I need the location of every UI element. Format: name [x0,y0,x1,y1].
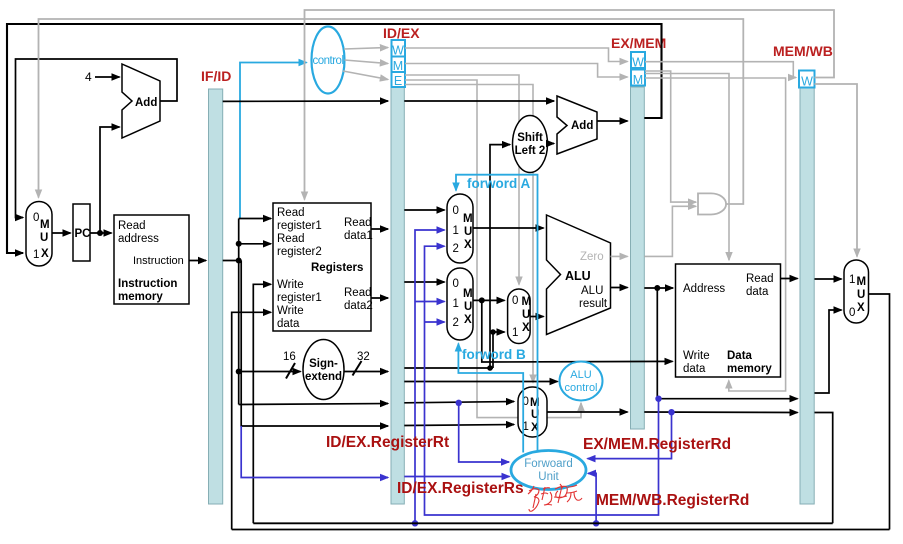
ID/EX WB box W [392,40,406,57]
wire instruction field bus vertical [238,219,240,405]
svg-text:data: data [746,286,769,298]
mux PC-source [26,202,52,267]
adder Add (PC+4) [122,64,160,138]
svg-text:Shift: Shift [517,132,543,144]
forwarding unit ellipse [511,451,586,490]
svg-text:ID/EX.RegisterRs: ID/EX.RegisterRs [397,480,524,497]
wire Zero to EX/MEM (gray) [611,255,628,257]
svg-text:address: address [118,233,159,245]
svg-text:1: 1 [512,327,518,339]
svg-text:Write: Write [683,350,710,362]
node PC output junction [97,230,103,236]
svg-text:U: U [464,226,472,238]
wire Instruction to IF/ID [189,260,206,262]
svg-text:PC: PC [75,228,91,240]
svg-text:IF/ID: IF/ID [201,68,231,84]
svg-text:Registers: Registers [311,262,363,274]
wire to Read register2 [239,243,271,245]
svg-text:Read: Read [746,273,774,285]
svg-text:0: 0 [453,205,459,217]
pipeline register ID/EX [391,87,404,504]
wire MemWrite: EX/MEM.M to data memory top (gray) [645,74,729,261]
EX/MEM WB box W [631,52,645,68]
svg-text:M: M [393,59,403,73]
svg-text:ID/EX.RegisterRt: ID/EX.RegisterRt [326,434,449,451]
wire ALUSrc: ID/EX.E to ALU-src mux select (gray) [405,75,519,285]
svg-text:M: M [463,213,473,225]
svg-text:forword A: forword A [467,176,530,191]
wire PC up to Add input 2 [100,127,120,233]
svg-text:M: M [522,296,532,308]
svg-text:Address: Address [683,283,725,295]
wire read data2 to forward mux B [404,281,444,283]
wire sign-extend output with 32 slash into ID/EX [344,371,388,373]
wire RegWrite: MEM/WB.W wrap to Registers (gray) [305,10,835,200]
svg-text:Read: Read [277,233,305,245]
node sign-extend junction [236,369,242,375]
node immediate to shift junction [487,365,493,371]
svg-text:memory: memory [727,363,772,375]
wire Add output loop back to mux input 0 [16,59,178,218]
svg-text:EX/MEM: EX/MEM [611,35,666,51]
wire control to ID/EX M [345,60,389,64]
forward mux B [447,268,473,340]
svg-text:ALU: ALU [565,269,591,283]
node instruction junction [236,258,242,264]
wire control to ID/EX W [344,48,388,50]
svg-text:W: W [392,44,404,58]
svg-text:data2: data2 [344,300,373,312]
wire instruction to control (cyan) [240,63,307,220]
instruction memory box [114,215,189,304]
alu main [547,215,611,335]
wire ID/EX.RegisterRt (blue) down to forwarding unit [459,403,509,462]
svg-text:W: W [632,56,644,70]
svg-text:data: data [277,318,300,330]
wire field bus Rd branch [241,261,388,427]
wire store data down and to data memory write data [482,300,673,362]
wire Read data1 into ID/EX [371,228,388,230]
svg-text:MEM/WB: MEM/WB [773,43,833,59]
alu-src mux [508,289,530,344]
svg-text:ALU: ALU [581,285,603,297]
svg-text:4: 4 [85,70,92,84]
wire PC+4 from IF/ID to ID/EX [223,100,388,102]
svg-text:0: 0 [849,307,855,319]
wire Rd to write-reg mux 1 [404,425,514,426]
EX/MEM M box [631,70,645,86]
wire sign-extend input with 16 slash [239,371,301,373]
svg-text:control: control [564,382,597,394]
pipeline register MEM/WB [800,88,814,504]
svg-text:1: 1 [453,225,459,237]
svg-text:W: W [801,75,813,89]
node ALU result junction [654,285,660,291]
wire MemtoReg: MEM/WB.W to final mux select (gray) [815,84,858,257]
svg-text:1: 1 [453,298,459,310]
svg-text:Read: Read [344,287,372,299]
pipeline register IF/ID [209,89,223,504]
svg-text:X: X [857,302,865,314]
wire PC to instruction memory [90,232,112,234]
wire MEM/WB value forward into mux B input 1 [415,301,445,303]
svg-text:control: control [312,55,343,67]
data memory box [676,264,781,377]
svg-text:M: M [633,73,643,87]
wire Read data from MEM/WB to final mux 1 [815,278,842,280]
wire write-back data bottom return [232,529,890,531]
svg-text:U: U [522,309,530,321]
svg-text:memory: memory [118,291,163,303]
svg-text:register1: register1 [277,220,322,232]
wire branch Add output to EX/MEM [597,120,628,122]
svg-text:1: 1 [33,249,39,261]
wire PC+4 ID/EX to branch Add [404,100,554,102]
svg-text:X: X [464,239,472,251]
wire EX/MEM value forward into mux B input 2 [425,321,445,323]
svg-text:EX/MEM.RegisterRd: EX/MEM.RegisterRd [583,436,731,453]
svg-text:Read: Read [344,217,372,229]
wire Rt to write-reg mux 0 [404,402,514,403]
wire write-register number up to Write register1 [253,284,271,523]
svg-text:register2: register2 [277,246,322,258]
labels: shift left 2, branch Add, forward muxes, ALU, ALU control, write-reg mux [453,120,608,434]
svg-text:Add: Add [135,97,157,109]
labels: register file ports, sign-extend, bit widths 16/32 [277,207,373,383]
wire ID/EX.W to EX/MEM.W (gray) [405,48,628,62]
labels: PC mux, PC, Add, instruction memory [33,97,184,303]
svg-text:Read: Read [118,220,146,232]
wire write-register number bottom return [253,522,832,524]
wire Rt into ID/EX [239,404,388,405]
svg-text:0: 0 [33,212,39,224]
wire Read data2 into ID/EX [371,297,388,299]
svg-text:Write: Write [277,279,304,291]
svg-text:MEM/WB.RegisterRd: MEM/WB.RegisterRd [596,492,749,509]
final write-back mux [844,260,869,323]
svg-text:1: 1 [849,274,855,286]
wire immediate up to shift left 2 [490,145,510,368]
svg-text:2: 2 [453,243,459,255]
wire EX/MEM.W to MEM/WB.W (gray) [645,62,796,78]
sign extend ellipse [303,340,344,400]
svg-text:ALU: ALU [570,369,591,381]
adder Add (branch target) [557,96,597,154]
svg-text:extend: extend [305,371,342,383]
wire shift left 2 to branch Add [548,143,555,145]
svg-text:data1: data1 [344,230,373,242]
shift left 2 ellipse [513,116,548,173]
wire constant 4 into Add [95,76,120,78]
wire instruction from IF/ID to field bus [223,260,239,262]
svg-text:0: 0 [512,295,518,307]
pc register PC [73,204,90,261]
svg-text:Instruction: Instruction [133,255,184,267]
annotation handwritten red scribble [528,484,582,511]
wire forward mux A output to ALU [473,227,544,229]
alu control ellipse [560,362,603,401]
svg-text:0: 0 [453,278,459,290]
wire read data1 to forward mux A [404,209,444,211]
svg-text:E: E [394,74,402,88]
ID/EX EX box E [392,72,406,87]
wire forward B control (cyan) from unit to mux B [458,344,523,453]
wire destination reg number from MEM/WB down [815,413,833,524]
node EX/MEM value blue junction [655,396,661,402]
wire ALU result to EX/MEM [611,287,628,289]
wire control to ID/EX E [343,71,388,80]
node EX/MEM Rd blue junction [668,409,674,415]
svg-text:16: 16 [283,351,296,363]
wire Branch: EX/MEM.M to AND gate (gray) [645,71,696,202]
wire forward mux B output to ALU-src mux 0 [473,299,505,301]
wire immediate from ID/EX [404,367,493,369]
wire MEM/WB.RegisterRd (blue) from bottom to forwarding unit [588,473,596,523]
svg-text:X: X [41,248,49,260]
svg-text:2: 2 [453,317,459,329]
svg-text:M: M [463,288,473,300]
wire write-back data up to Write data [232,312,271,529]
svg-text:Zero: Zero [580,251,604,263]
svg-text:Instruction: Instruction [118,278,177,290]
svg-text:Left 2: Left 2 [515,145,546,157]
wire write-reg mux output to EX/MEM [547,411,628,413]
wire ALU-src mux output to ALU [530,316,543,318]
wire ID/EX.RegisterRs (blue) into ID/EX and to forwarding unit [241,426,388,478]
node read-register2 junction [236,241,242,247]
wire ID/EX.M to EX/MEM.M (gray) [405,64,628,78]
wire RegDst: ID/EX.E to write-reg mux select (gray) [405,85,533,383]
svg-text:X: X [464,314,472,326]
svg-text:U: U [40,232,48,244]
svg-text:X: X [522,322,530,334]
svg-text:forword B: forword B [462,347,526,362]
forward mux A [447,194,473,263]
wire ALU result from MEM/WB to final mux 0 [815,310,842,393]
wire forward A control (cyan) from unit to mux A [456,175,538,451]
svg-text:U: U [857,289,865,301]
wire EX/MEM ALU value forward (blue) [425,246,659,515]
svg-text:Forwoard: Forwoard [524,458,573,470]
svg-text:register1: register1 [277,292,322,304]
wire mux to PC [52,232,71,234]
svg-text:result: result [579,298,608,310]
node Rt blue junction [456,400,462,406]
and gate branch [698,193,726,214]
wire destination reg number from EX/MEM to MEM/WB [644,411,797,414]
node ALU-src immediate junction [490,329,496,335]
wire to Read register1 [239,218,271,220]
svg-text:M: M [40,219,50,231]
pipeline register EX/MEM [631,87,645,429]
control unit ellipse [312,27,345,94]
svg-text:Unit: Unit [538,471,559,483]
svg-text:Read: Read [277,207,305,219]
wire ALUOp: ID/EX.E to ALU control (gray) [405,80,581,418]
ID/EX M box [392,57,406,73]
wire final mux output down to bottom [869,294,890,530]
wire branch return from EX/MEM to mux input 1 [7,24,662,253]
registers file box [273,203,371,331]
svg-text:Data: Data [727,350,753,362]
wire Zero from EX/MEM to AND gate (gray) [644,206,696,256]
wire MemRead: EX/MEM.M to data memory bottom (gray) [645,78,786,391]
svg-text:Write: Write [277,305,304,317]
svg-text:Sign-: Sign- [309,358,338,370]
MEM/WB WB box W [799,71,815,88]
labels: data memory ports, write-back mux [683,273,866,375]
svg-text:M: M [857,276,867,288]
wire Read data to MEM/WB [781,278,798,280]
wire ALU result from EX/MEM to data memory Address [644,287,673,289]
svg-text:U: U [464,301,472,313]
svg-text:data: data [683,363,706,375]
svg-text:ID/EX: ID/EX [383,25,420,41]
wire funct field to ALU control [404,381,557,383]
wire EX/MEM.RegisterRd (blue) down to forwarding unit [588,412,672,458]
svg-text:Add: Add [571,120,593,132]
node MEM/WB Rd blue junction [593,520,599,526]
wire immediate up to ALU-src mux 1 [493,332,505,368]
wire PCSrc: AND gate output to PC mux select (gray) [39,19,744,204]
write-register mux [518,387,547,437]
wire MEM/WB value forward (blue) up to mux A input 1 [415,230,445,523]
wire ALU result down to MEM/WB [657,288,797,399]
node MEM/WB value blue junction [412,520,418,526]
node write-data branch junction [479,297,485,303]
svg-text:32: 32 [357,351,370,363]
